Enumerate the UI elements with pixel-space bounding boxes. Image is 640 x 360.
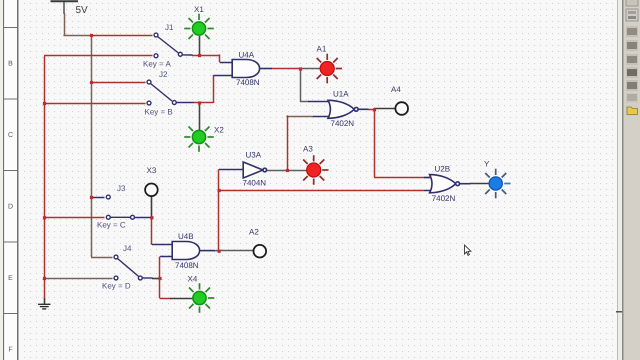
- svg-text:D: D: [8, 204, 13, 211]
- svg-text:7408N: 7408N: [175, 261, 199, 270]
- svg-text:U4A: U4A: [239, 51, 255, 60]
- svg-text:Y: Y: [484, 160, 490, 169]
- svg-text:J1: J1: [165, 23, 174, 32]
- svg-text:7402N: 7402N: [432, 194, 456, 203]
- svg-text:5V: 5V: [76, 5, 89, 16]
- svg-text:X3: X3: [147, 166, 157, 175]
- svg-text:J3: J3: [117, 184, 126, 193]
- svg-text:Key = B: Key = B: [145, 107, 173, 116]
- svg-text:X1: X1: [194, 5, 204, 14]
- svg-text:7402N: 7402N: [331, 119, 355, 128]
- svg-text:Key = D: Key = D: [102, 282, 131, 291]
- svg-text:J4: J4: [123, 244, 132, 253]
- svg-text:Key = C: Key = C: [97, 221, 126, 230]
- svg-text:U3A: U3A: [246, 150, 262, 159]
- svg-text:7404N: 7404N: [243, 179, 267, 188]
- svg-text:A3: A3: [303, 145, 313, 154]
- svg-text:F: F: [8, 347, 12, 354]
- svg-text:X4: X4: [188, 274, 198, 283]
- svg-text:Key = A: Key = A: [143, 60, 171, 69]
- svg-text:J2: J2: [159, 70, 168, 79]
- svg-text:C: C: [8, 132, 13, 139]
- svg-text:A1: A1: [317, 45, 327, 54]
- svg-text:7408N: 7408N: [236, 78, 260, 87]
- svg-text:U2B: U2B: [435, 164, 451, 173]
- svg-text:A2: A2: [249, 228, 259, 237]
- svg-text:B: B: [8, 61, 13, 68]
- svg-text:U1A: U1A: [333, 89, 349, 98]
- svg-text:A4: A4: [391, 85, 401, 94]
- svg-text:X2: X2: [214, 125, 224, 134]
- svg-text:E: E: [8, 275, 13, 282]
- svg-text:U4B: U4B: [178, 232, 194, 241]
